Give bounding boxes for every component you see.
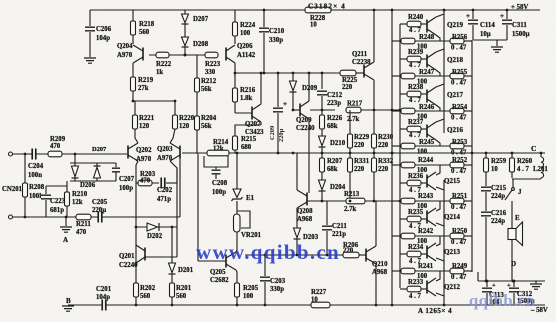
wire to Q209 base: [293, 109, 300, 111]
wire VAS line: [310, 109, 335, 111]
resistor R239: [407, 56, 421, 62]
transistor Q217: [426, 90, 428, 103]
diode D207: [182, 14, 189, 23]
wire R208 bottom lead: [24, 197, 26, 217]
wire R254 to bus: [464, 110, 472, 112]
wire R251 to bus: [464, 200, 472, 202]
ground under C206: [84, 58, 96, 63]
wire C211 top lead: [326, 201, 328, 225]
wire output rail: [472, 152, 545, 154]
wire row join: [415, 235, 450, 237]
wire R208 top lead: [24, 154, 26, 183]
wire R244 left lead: [392, 164, 401, 166]
wire Q203 base line: [182, 152, 207, 154]
wire Q207 emitter down: [260, 122, 262, 125]
junction dots: [184, 54, 187, 57]
wire D208 bottom lead: [184, 47, 186, 55]
wire Q207 collector up: [260, 73, 262, 104]
wire R240-base: [421, 23, 427, 25]
capacitor C204: [32, 149, 36, 160]
wire VAS line right: [361, 109, 400, 111]
resistor R222: [156, 52, 169, 58]
capacitor C205: [98, 212, 102, 223]
resistor R212: [195, 78, 200, 92]
wire Q209 emitter to Q208: [308, 119, 310, 193]
wire R236-base: [421, 182, 427, 184]
wire R221-Q202 emitter: [135, 129, 138, 143]
wire to ground A: [65, 217, 67, 226]
wire R205 bottom lead: [236, 297, 238, 305]
wire driver bus V1: [391, 10, 393, 305]
wire R224-Q206: [234, 36, 236, 44]
wire Q201 region: [135, 244, 137, 264]
wire mid rail: [229, 152, 472, 154]
wire Q217 emitter: [436, 105, 440, 111]
wire R239 left lead: [400, 58, 407, 60]
transistor Q206: [225, 48, 227, 61]
resistor R225: [340, 70, 356, 76]
svg-text:qqlbb.cn: qqlbb.cn: [469, 291, 535, 310]
wire Q219 collector: [436, 14, 444, 17]
wire PNP collector bus: [443, 180, 445, 305]
resistor R218: [131, 21, 136, 35]
wire R233-base: [421, 288, 427, 290]
resistor R201: [170, 283, 175, 297]
wire +58V top rail: [90, 9, 540, 11]
wire D209 bottom lead: [292, 92, 294, 110]
potentiometer VR201: [234, 214, 241, 232]
resistor R219: [131, 77, 136, 91]
capacitor C212: [317, 90, 327, 96]
resistor R253: [450, 143, 464, 149]
transistor Q215: [426, 175, 428, 188]
wire C210 top lead: [263, 10, 265, 27]
resistor R227: [311, 302, 330, 308]
wire D202-D201: [171, 227, 173, 257]
capacitor C203: [260, 276, 270, 282]
wire predriver line: [245, 254, 343, 256]
wire Q201 emitter to R202: [135, 264, 137, 283]
resistor R259: [484, 158, 489, 172]
transistor Q214: [426, 211, 428, 224]
wire R332 top lead: [373, 153, 375, 158]
wire R204 line down: [197, 154, 199, 261]
wire R218 top lead: [132, 10, 134, 21]
resistor R233: [407, 286, 421, 292]
resistor R206: [343, 252, 359, 258]
wire R239-base: [421, 58, 427, 60]
wire D210 bottom lead: [321, 147, 323, 153]
wire row join: [415, 110, 450, 112]
wire Q216 emitter: [436, 140, 440, 146]
wire R234-base: [421, 253, 427, 255]
wire bias top line: [235, 72, 341, 74]
wire R229 top lead: [349, 110, 351, 134]
wire R226 top lead: [321, 110, 323, 115]
wire Q214 collector: [436, 223, 444, 226]
wire to R215: [235, 125, 261, 136]
wire R238-base: [421, 93, 427, 95]
inductor L201: [541, 153, 544, 179]
wire bottom cap line: [478, 280, 545, 282]
capacitor C206: [85, 26, 95, 32]
wire R259 top lead: [485, 153, 487, 158]
wire NPN collector bus: [443, 10, 445, 133]
wire R218-Q204: [132, 35, 134, 44]
wire to ground bottom right: [535, 281, 537, 284]
wire C202 right: [166, 182, 177, 184]
wire R247 left lead: [392, 75, 401, 77]
resistor R241: [401, 268, 415, 274]
wire R235 left lead: [400, 218, 407, 220]
wire R259-C215: [485, 172, 487, 186]
wire C212 top lead: [321, 73, 323, 89]
resistor R245: [401, 143, 415, 149]
wire bus to bottom: [477, 272, 479, 281]
wire Q218 emitter: [436, 70, 440, 76]
wire R207-D204: [321, 172, 323, 180]
resistor R215: [233, 136, 238, 150]
resistor R220: [173, 115, 178, 129]
wire R260 top lead: [511, 153, 513, 158]
svg-text:www.qqibb.cn: www.qqibb.cn: [196, 240, 340, 264]
wire Q208 emitter up: [296, 153, 298, 190]
wire D206 bottom line: [70, 180, 116, 182]
wire R332 bottom lead: [373, 172, 375, 201]
wire diff-pair top line: [133, 100, 175, 102]
capacitor C312: [513, 281, 515, 287]
wire Q212 collector: [436, 293, 444, 296]
scan noise: [0, 0, 1, 1]
capacitor C201: [102, 300, 106, 311]
resistor R251: [450, 198, 464, 204]
wire Q202 collector down: [136, 161, 138, 244]
resistor R230: [372, 134, 377, 148]
diode D202: [147, 223, 158, 231]
resistor R243: [401, 198, 415, 204]
wire R220 top lead: [174, 101, 176, 115]
resistor R252: [450, 162, 464, 168]
wire C206 bottom lead: [89, 32, 91, 57]
wire Q205 emitter to R205: [236, 270, 237, 283]
wire Q216 collector: [436, 119, 444, 122]
wire R230 bottom lead: [373, 148, 375, 153]
input terminal bottom: [9, 215, 13, 219]
resistor R246: [401, 108, 415, 114]
wire Q205 base lead: [198, 260, 226, 262]
resistor R221: [133, 115, 138, 129]
wire C223-R210 link: [46, 185, 67, 187]
resistor R234: [407, 251, 421, 257]
resistor R207: [320, 158, 325, 172]
diode D203: [294, 228, 301, 238]
wire R224 top lead: [234, 10, 236, 22]
transistor Q201: [144, 248, 146, 261]
transistor Q219: [426, 20, 428, 33]
resistor R248: [401, 38, 415, 44]
wire Q213 collector: [436, 258, 444, 261]
wire output emitter bus: [471, 40, 473, 272]
resistor R244: [401, 162, 415, 168]
wire R238 left lead: [400, 93, 407, 95]
wire Q205 collector join: [236, 250, 237, 252]
capacitor C215: [481, 186, 491, 192]
wire R253 to bus: [464, 145, 472, 147]
wire Q203 collector down: [176, 168, 178, 183]
capacitor C216: [481, 211, 491, 217]
wire C114 top lead: [472, 10, 474, 19]
transistor Q209: [299, 104, 301, 117]
wire Q204 collector: [132, 63, 134, 77]
resistor R203: [138, 180, 152, 186]
wire R237-base: [421, 128, 427, 130]
wire Q211 emitter down: [373, 80, 375, 110]
wire Q210 collector down: [375, 264, 377, 305]
wire C311 top lead: [506, 10, 508, 19]
wire Q208 collector down: [296, 208, 298, 228]
diode D208: [182, 37, 189, 46]
wire Q212 emitter: [436, 271, 440, 281]
wire row join: [415, 270, 450, 272]
wire R201 bottom lead: [171, 297, 173, 305]
wire R210 bottom lead: [66, 206, 68, 217]
resistor R229: [348, 134, 353, 148]
input terminal top: [9, 152, 13, 156]
wire Q218 collector: [436, 49, 444, 52]
transistor Q218: [426, 55, 428, 68]
resistor R209: [48, 151, 62, 157]
wire row join: [415, 40, 450, 42]
speaker LS: [508, 229, 516, 240]
capacitor C113: [486, 281, 488, 287]
resistor R249: [450, 268, 464, 274]
wire R234 left lead: [400, 253, 407, 255]
switch J: [512, 188, 515, 191]
resistor R214: [207, 150, 229, 156]
wire row join: [415, 164, 450, 166]
wire R216-Q207 base: [234, 102, 236, 113]
wire R221 top lead: [134, 101, 136, 115]
wire VR201 bottom lead: [236, 232, 238, 250]
wire C216 bottom lead: [485, 217, 487, 281]
wire lower VAS line: [307, 200, 346, 202]
resistor R204: [195, 116, 200, 130]
resistor R213: [346, 198, 365, 204]
wire D203 bottom lead: [296, 239, 298, 255]
wire D209 top lead: [292, 73, 294, 81]
wire Q215 collector: [436, 187, 444, 190]
wire R202 bottom lead: [135, 297, 137, 305]
wire R212-R204: [196, 92, 198, 116]
wire C209 top lead: [277, 73, 279, 107]
resistor R240: [407, 21, 421, 27]
resistor R223: [205, 52, 218, 58]
wire -58V bottom rail: [68, 304, 545, 306]
ground A: [60, 227, 72, 232]
wire R204 bottom lead: [196, 130, 198, 154]
resistor R217: [346, 107, 361, 113]
wire R260-L201 join: [512, 178, 541, 180]
wire Q215 emitter: [436, 165, 440, 175]
diode D209: [290, 81, 297, 91]
resistor R247: [401, 73, 415, 79]
wire R235-base: [421, 218, 427, 220]
resistor R205: [235, 283, 240, 297]
transistor Q205: [225, 255, 227, 268]
wire R252 to bus: [464, 164, 472, 166]
wire C209 bottom lead: [277, 113, 279, 153]
capacitor C208: [215, 167, 217, 170]
wire R219 bottom lead: [132, 91, 134, 101]
wire feedback to Q203 base: [179, 158, 181, 217]
capacitor C211: [322, 225, 332, 231]
capacitor C209: [273, 107, 283, 113]
wire R206-Q210 base: [359, 254, 366, 256]
resistor R236: [407, 180, 421, 186]
wire Q219 emitter: [436, 35, 440, 41]
resistor R210: [65, 192, 70, 206]
wire C210 bottom lead: [263, 33, 265, 73]
wire R260 bottom lead: [511, 172, 513, 178]
wire R241 left lead: [392, 270, 401, 272]
wire R331 bottom lead: [349, 172, 351, 201]
transistor Q213: [426, 246, 428, 259]
transistor Q211: [363, 65, 365, 78]
wire R220-Q203 emitter: [170, 129, 175, 143]
wire R245 left lead: [392, 145, 401, 147]
wire to D201: [171, 257, 173, 263]
wire base bus V2: [399, 24, 401, 288]
resistor R254: [450, 108, 464, 114]
wire to ground: [496, 40, 498, 46]
wire C203 bottom lead: [264, 282, 266, 305]
wire R248 left lead: [392, 40, 401, 42]
resistor R256: [450, 38, 464, 44]
resistor R237: [407, 126, 421, 132]
wire R233 left lead: [400, 288, 407, 290]
transistor Q216: [426, 125, 428, 138]
wire D207 top lead: [184, 10, 186, 14]
wire Q214 emitter: [436, 201, 440, 211]
wire R249 to bus: [464, 270, 472, 272]
diode D206a: [72, 166, 79, 177]
wire C311 bottom lead: [506, 25, 508, 40]
wire VR201 wiper loop: [237, 211, 250, 228]
wire feedback line: [76, 216, 180, 218]
resistor R250: [450, 233, 464, 239]
capacitor C202: [161, 178, 165, 189]
capacitor C210: [259, 27, 269, 33]
zener E1: [233, 189, 241, 198]
transistor Q208: [306, 193, 308, 206]
capacitor C223: [41, 194, 51, 200]
transistor Q207: [251, 107, 253, 120]
wire D207-D208: [184, 24, 186, 37]
wire R210 top lead: [66, 181, 68, 192]
resistor R216: [233, 88, 238, 102]
wire Q203 collector path: [170, 161, 177, 257]
capacitor C114: [468, 19, 478, 25]
wire D202 line: [136, 226, 177, 228]
transistor Q210: [365, 249, 367, 262]
wire input to D206 net: [74, 154, 76, 163]
resistor R260: [510, 158, 515, 172]
resistor R331: [348, 158, 353, 172]
wire R250 to bus: [464, 235, 472, 237]
wire R246 left lead: [392, 110, 401, 112]
diode D201: [169, 263, 176, 273]
wire R331 top lead: [349, 153, 351, 158]
wire input line: [13, 153, 128, 155]
wire to switch J: [512, 179, 514, 187]
wire Q209 collector up: [308, 73, 310, 101]
wire caps common: [473, 39, 507, 41]
wire row join: [415, 200, 450, 202]
resistor R228: [305, 7, 331, 13]
resistor R255: [450, 73, 464, 79]
wire D204 bottom lead: [321, 191, 323, 201]
resistor R224: [233, 22, 238, 36]
wire Q211 collector to rail: [373, 10, 375, 62]
wire row join: [415, 75, 450, 77]
wire switch to speaker: [511, 201, 513, 229]
wire Q207 base lead: [235, 112, 252, 114]
wire Q206 collector down: [234, 63, 236, 76]
wire feedback line left: [13, 216, 77, 218]
wire R256 to bus: [464, 40, 472, 42]
wire R236 left lead: [400, 182, 407, 184]
wire R243 left lead: [392, 200, 401, 202]
wire C212 bottom lead: [321, 96, 323, 110]
wire D201-R201: [171, 274, 173, 283]
wire C211 bottom lead: [326, 231, 328, 255]
loop under R214: [204, 156, 228, 167]
wire R215 bottom lead: [234, 150, 236, 153]
diode D210: [319, 136, 326, 146]
wire R203 left: [136, 182, 159, 184]
resistor R238: [407, 91, 421, 97]
wire R222-R223 line: [149, 54, 206, 56]
wire speaker bottom: [511, 240, 513, 282]
transistor Q203: [179, 146, 181, 159]
wire C223 bottom lead: [45, 200, 47, 217]
ground top right: [491, 47, 503, 52]
wire R229 bottom lead: [349, 148, 351, 153]
capacitor C311: [502, 19, 512, 25]
diode D206b: [94, 167, 101, 178]
wire Q210 emitter up: [375, 201, 377, 246]
ground B: [62, 306, 74, 311]
wire R216 top lead: [234, 73, 236, 88]
wire Q217 collector: [436, 84, 444, 87]
ground bottom right: [530, 284, 542, 289]
wire C215-C216: [485, 192, 487, 211]
wire R242 left lead: [392, 235, 401, 237]
wire R225-Q211 base: [356, 72, 364, 74]
transistor Q202: [127, 146, 129, 159]
resistor R226: [320, 115, 325, 129]
wire R255 to bus: [464, 75, 472, 77]
wire to E1: [236, 153, 238, 189]
wire Q213 emitter: [436, 236, 440, 246]
wire C223 top lead: [45, 186, 47, 194]
resistor R332: [372, 158, 377, 172]
wire C206 top lead: [89, 10, 91, 26]
wire R240 left lead: [400, 23, 407, 25]
transistor Q212: [426, 281, 428, 294]
resistor R202: [134, 283, 139, 297]
wire R212 top lead: [196, 55, 198, 78]
